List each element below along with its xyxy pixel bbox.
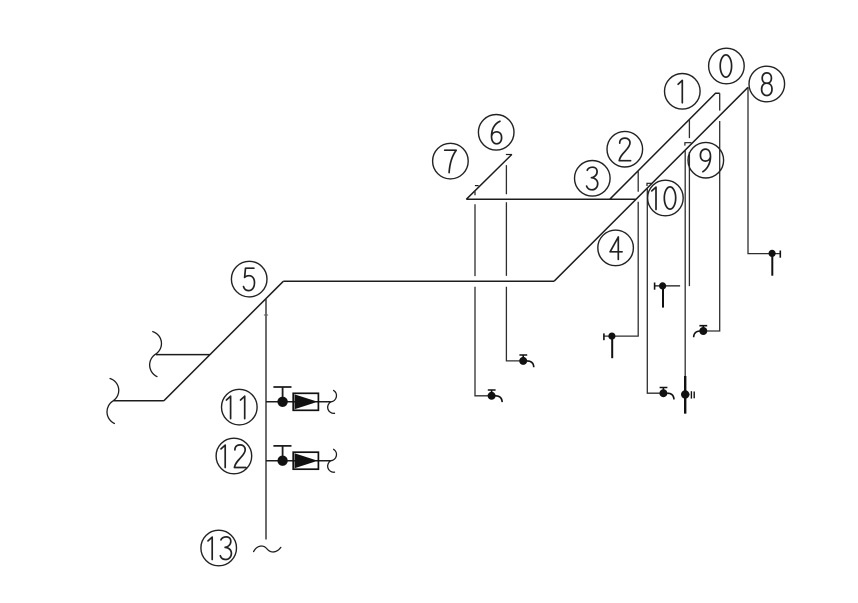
node label circle 0 xyxy=(709,48,745,84)
check valve triangle (branch 12) xyxy=(295,453,318,468)
node 9b drop: vertical from D2 xyxy=(684,150,686,414)
node 6 drop: vertical V6 with crossing breaks xyxy=(506,165,523,361)
digit 2 (node 2) xyxy=(619,138,630,161)
digit 6 (node 6) xyxy=(492,121,502,144)
break squiggle upper-left xyxy=(150,332,162,377)
node label circle 6 xyxy=(478,115,514,151)
digits 10 (node 10) xyxy=(652,187,656,209)
node 0 drop: vertical V0 with crossing break xyxy=(700,93,719,331)
node label circle 10 xyxy=(648,180,684,216)
digit 0 (node 0) xyxy=(720,55,731,77)
node 5 drop: vertical pipe V5 xyxy=(265,299,267,540)
node 10 tick xyxy=(647,183,653,186)
break squiggle branch 11 xyxy=(328,390,337,413)
digit 9 (node 9) xyxy=(700,149,710,172)
node label circle 13 xyxy=(201,530,237,566)
wire: main riser diagonal D1 (node 5 leg) xyxy=(164,281,283,401)
valve handle T (branch 12) xyxy=(273,446,291,461)
valve dot (branch 12) xyxy=(277,456,287,466)
valve dot (branch 11) xyxy=(277,397,287,407)
check valve body (branch 11) xyxy=(293,393,318,410)
node 9 tick xyxy=(685,143,692,146)
wire: horizontal main H3 (node 3) xyxy=(466,198,636,200)
tick on V5 xyxy=(264,314,268,316)
node label circle 4 xyxy=(598,230,634,266)
valve E (node 8 branch) xyxy=(772,251,780,276)
digit 4 (node 4) xyxy=(610,237,622,259)
wire: main diagonal D2 up to node 8 apex xyxy=(554,87,748,281)
check valve triangle (branch 11) xyxy=(295,394,318,409)
break squiggle branch 12 xyxy=(328,449,337,472)
node label circle 8 xyxy=(749,66,785,102)
branch 12: pipe with valve and check valve xyxy=(266,446,336,472)
faucet A (end of node 7 pipe) xyxy=(488,390,502,402)
node label circle 1 xyxy=(665,74,701,110)
node 7 tick xyxy=(475,185,479,187)
node 2 drop: vertical V2 with crossing break xyxy=(604,171,638,336)
wire: long horizontal main H2 xyxy=(283,280,554,282)
faucet G (end of node 0 pipe, left facing) xyxy=(694,326,708,338)
wire: lower-left inlet horizontal pipe xyxy=(113,400,163,402)
node label circle 3 xyxy=(575,161,611,197)
node label circle 7 xyxy=(433,143,469,179)
digit 3 (node 3) xyxy=(587,167,598,190)
faucet B (end of node 6 pipe) xyxy=(519,355,533,367)
digit 5 (node 5) xyxy=(244,268,255,290)
node 9 drop: vertical V9 with crossing break xyxy=(688,120,690,287)
digits 11 (node 11) xyxy=(226,396,230,418)
node label circle 5 xyxy=(231,261,267,297)
label digits xyxy=(208,55,772,560)
valve F on vertical pipe xyxy=(685,391,694,398)
wire: upper diagonal D3 (node 1) with apex jog xyxy=(610,93,720,199)
wire: upper-left branch horizontal xyxy=(156,354,210,356)
branch 11: pipe with valve and check valve xyxy=(266,387,336,413)
wire: branch diagonal D6 (node 6) xyxy=(466,154,512,199)
valve handle T (branch 11) xyxy=(273,387,291,402)
wire: branch 11 horizontal xyxy=(266,401,331,403)
node label circle 2 xyxy=(607,131,643,167)
node label circle 9 xyxy=(688,142,724,178)
break squiggle lower-left xyxy=(107,379,119,424)
node 7 drop: vertical V7 with crossing breaks xyxy=(475,191,492,396)
digit 8 (node 8) xyxy=(762,73,772,96)
digits 13 (node 13) xyxy=(208,537,212,559)
node 8 drop: vertical V8 xyxy=(748,87,781,253)
pipe end tilde (node 13) xyxy=(254,546,281,552)
digits 12 (node 12) xyxy=(221,445,225,467)
digit 7 (node 7) xyxy=(445,150,457,172)
wire: branch 12 horizontal xyxy=(266,460,331,462)
check valve body (branch 12) xyxy=(293,452,318,469)
valve D (node 9 branch) xyxy=(655,283,681,308)
faucet H (end of node 10 pipe) xyxy=(660,388,674,400)
node label circle 12 xyxy=(216,438,252,474)
node 10 drop: vertical V10 xyxy=(647,188,663,393)
node label circle 11 xyxy=(222,389,258,425)
valve C (end of node 2 pipe) xyxy=(604,333,612,358)
label circles xyxy=(201,48,785,566)
thick pipe segment above valve F xyxy=(684,376,686,414)
node 6 apex tick xyxy=(506,154,512,156)
digit 1 (node 1) xyxy=(678,80,682,102)
